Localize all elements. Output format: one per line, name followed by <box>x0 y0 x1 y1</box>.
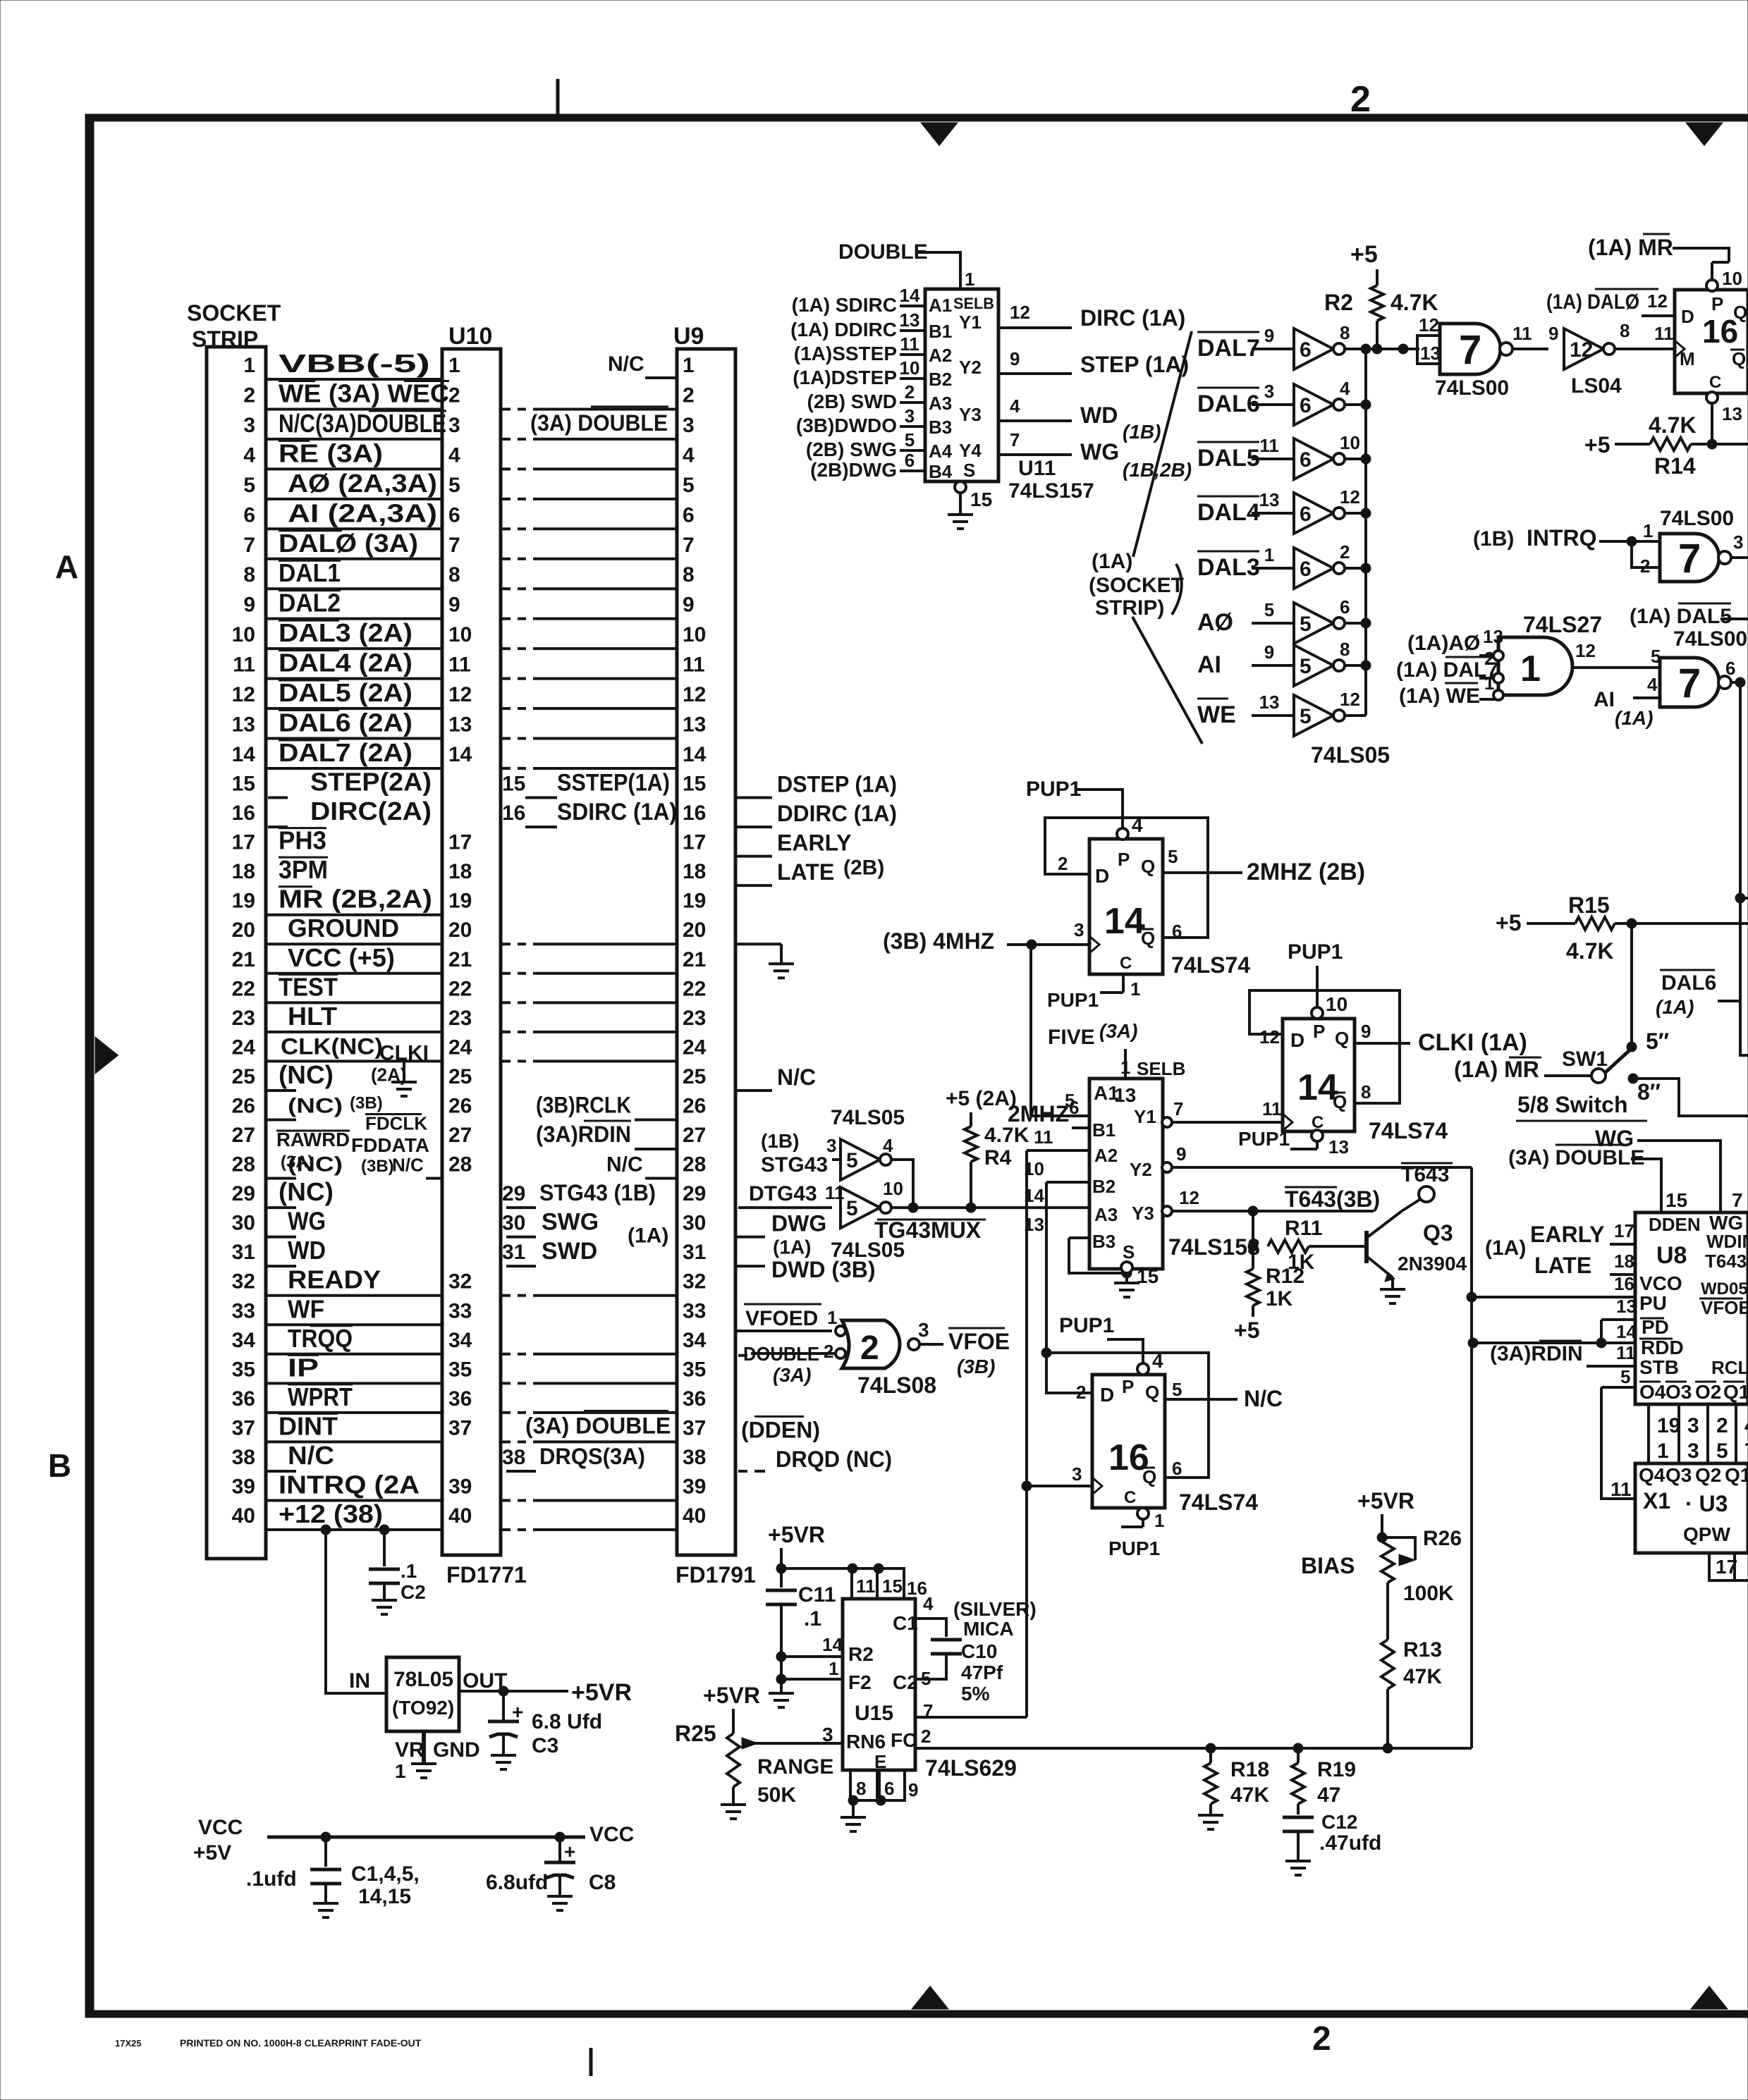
svg-text:O4: O4 <box>1639 1381 1666 1403</box>
svg-text:O2: O2 <box>1695 1381 1721 1403</box>
svg-text:14,15: 14,15 <box>358 1885 411 1908</box>
svg-text:.1: .1 <box>804 1607 821 1631</box>
svg-text:29: 29 <box>683 1182 706 1205</box>
svg-text:(3A): (3A) <box>773 1364 811 1386</box>
svg-text:WE: WE <box>1197 701 1236 728</box>
svg-text:R18: R18 <box>1230 1758 1269 1781</box>
svg-text:(1A)AØ: (1A)AØ <box>1407 632 1480 655</box>
svg-text:N/C: N/C <box>606 1153 643 1177</box>
U11 pin 3 (3B)DWDO <box>900 425 925 428</box>
svg-text:M: M <box>1680 348 1695 369</box>
svg-text:(1A): (1A) <box>1092 550 1132 573</box>
svg-text:+: + <box>564 1841 575 1862</box>
ground at U10 pin 24/25 CLKI <box>403 1061 405 1082</box>
svg-text:2: 2 <box>1716 1414 1728 1437</box>
svg-text:22: 22 <box>232 977 255 1000</box>
mux pin 5 A1 (4MHZ) <box>1031 1115 1089 1117</box>
svg-text:78L05: 78L05 <box>393 1668 453 1691</box>
svg-text:40: 40 <box>232 1504 255 1528</box>
svg-text:SDIRC (1A): SDIRC (1A) <box>557 799 677 825</box>
svg-text:+5: +5 <box>1234 1318 1259 1343</box>
svg-text:9: 9 <box>1548 323 1558 344</box>
svg-text:DAL6 (2A): DAL6 (2A) <box>279 708 412 737</box>
svg-text:7: 7 <box>448 534 460 557</box>
svg-text:FIVE: FIVE <box>1048 1026 1095 1049</box>
svg-text:33: 33 <box>232 1299 255 1322</box>
svg-text:SSTEP(1A): SSTEP(1A) <box>557 770 670 797</box>
svg-text:4: 4 <box>1340 378 1350 399</box>
svg-text:17: 17 <box>683 831 706 854</box>
svg-text:37: 37 <box>232 1416 255 1439</box>
svg-text:5: 5 <box>1300 655 1312 678</box>
X1-U3 pin 17 QPW out <box>1709 1553 1748 1580</box>
U15 pin 14 R2 <box>776 1652 786 1662</box>
svg-text:F2: F2 <box>848 1671 872 1693</box>
svg-text:DIRC (1A): DIRC (1A) <box>1080 305 1185 331</box>
svg-text:C10: C10 <box>961 1640 997 1662</box>
svg-text:PRINTED ON NO. 1000H-8 CLEARPR: PRINTED ON NO. 1000H-8 CLEARPRINT FADE-O… <box>180 2037 422 2049</box>
svg-text:SW1: SW1 <box>1562 1048 1608 1071</box>
border frame <box>85 114 1748 121</box>
svg-text:(1A)SSTEP: (1A)SSTEP <box>794 343 897 364</box>
net label STG43 (1B) row29 <box>506 1206 536 1209</box>
svg-text:5/8 Switch: 5/8 Switch <box>1517 1092 1628 1117</box>
zone marker triangle top-left <box>921 123 958 146</box>
svg-text:DAL7 (2A): DAL7 (2A) <box>279 738 412 767</box>
svg-text:10: 10 <box>900 357 920 379</box>
svg-text:CLK(NC): CLK(NC) <box>281 1033 383 1059</box>
svg-text:WE (3A) WEC: WE (3A) WEC <box>279 379 449 407</box>
svg-text:30: 30 <box>232 1212 255 1235</box>
svg-text:DAL5: DAL5 <box>1197 445 1260 472</box>
svg-text:(1B): (1B) <box>1123 421 1161 443</box>
NAND gate 74LS00 pins 12/13 out 11 <box>1417 336 1440 364</box>
svg-text:14: 14 <box>448 743 472 766</box>
svg-text:STRIP): STRIP) <box>1095 596 1164 620</box>
svg-text:STB: STB <box>1639 1356 1679 1378</box>
svg-text:N/C: N/C <box>1244 1386 1283 1411</box>
svg-text:(3A)RDIN: (3A)RDIN <box>1490 1342 1583 1365</box>
svg-text:WG: WG <box>288 1207 326 1236</box>
svg-text:+5VR: +5VR <box>703 1683 760 1708</box>
svg-text:14: 14 <box>822 1634 843 1655</box>
net label DSTEP (1A) U9 row15 <box>735 797 772 799</box>
svg-text:12: 12 <box>1575 640 1596 661</box>
svg-text:17: 17 <box>232 831 255 854</box>
svg-text:19: 19 <box>1657 1414 1680 1437</box>
svg-text:6: 6 <box>1172 921 1182 942</box>
svg-text:3: 3 <box>243 414 255 437</box>
svg-text:A1: A1 <box>929 295 952 316</box>
svg-text:TEST: TEST <box>279 972 338 1001</box>
svg-text:DTG43: DTG43 <box>749 1182 817 1205</box>
svg-text:9: 9 <box>1361 1021 1371 1042</box>
svg-text:19: 19 <box>232 890 255 913</box>
svg-text:DSTEP (1A): DSTEP (1A) <box>777 772 897 797</box>
svg-text:(1A): (1A) <box>628 1224 668 1248</box>
svg-text:23: 23 <box>683 1007 706 1030</box>
zone tick 1 top <box>556 79 560 114</box>
svg-text:13: 13 <box>683 713 706 737</box>
IC U8 body <box>1635 1212 1748 1404</box>
svg-text:11: 11 <box>900 333 919 355</box>
wire DAL3 inverter output to bus <box>1345 567 1366 570</box>
svg-text:R19: R19 <box>1317 1758 1356 1781</box>
svg-text:26: 26 <box>448 1094 472 1117</box>
svg-text:R13: R13 <box>1403 1638 1442 1662</box>
svg-text:11: 11 <box>1512 323 1532 344</box>
svg-text:AØ (2A,3A): AØ (2A,3A) <box>288 469 437 498</box>
svg-text:+: + <box>512 1701 523 1723</box>
svg-text:C: C <box>1124 1488 1136 1507</box>
svg-text:25: 25 <box>448 1065 472 1088</box>
svg-text:2: 2 <box>243 383 255 407</box>
svg-text:11: 11 <box>233 653 255 677</box>
net label DRQD (NC) U9 row38 <box>738 1470 747 1473</box>
svg-text:6: 6 <box>448 503 460 527</box>
svg-text:P: P <box>1122 1376 1134 1397</box>
wire NAND6 output down right edge <box>1740 682 1748 1055</box>
svg-text:74LS27: 74LS27 <box>1523 612 1602 637</box>
U11 pin 6 (2B)DWG <box>900 469 925 472</box>
svg-text:50K: 50K <box>757 1783 796 1807</box>
wire socket-strip pin 13 to U10 <box>266 737 442 740</box>
capacitor C8 6.8ufd <box>555 1832 565 1842</box>
svg-text:6: 6 <box>905 450 915 471</box>
svg-text:21: 21 <box>683 948 706 971</box>
svg-text:4.7K: 4.7K <box>1649 412 1697 438</box>
svg-text:20: 20 <box>683 919 706 942</box>
svg-text:2MHZ: 2MHZ <box>1008 1101 1069 1126</box>
svg-text:3: 3 <box>1733 532 1743 553</box>
svg-text:13: 13 <box>900 309 920 331</box>
svg-text:C2: C2 <box>401 1581 426 1603</box>
svg-text:VR: VR <box>395 1738 424 1762</box>
svg-text:24: 24 <box>683 1036 707 1059</box>
svg-text:WF: WF <box>288 1294 324 1323</box>
wire stub socket pin 29 <box>266 1206 296 1209</box>
svg-text:19: 19 <box>448 890 472 913</box>
svg-text:30: 30 <box>683 1212 706 1235</box>
svg-text:3: 3 <box>905 405 915 426</box>
svg-text:2: 2 <box>683 383 695 407</box>
svg-text:Q: Q <box>1333 1091 1347 1112</box>
svg-text:13: 13 <box>1420 343 1441 364</box>
svg-text:(SOCKET: (SOCKET <box>1089 574 1184 597</box>
svg-text:R15: R15 <box>1568 892 1610 918</box>
svg-text:2: 2 <box>1350 79 1371 120</box>
wire 74LS27 out to NAND pin 5 <box>1572 666 1660 669</box>
svg-text:R2: R2 <box>1324 290 1353 315</box>
svg-text:U11: U11 <box>1018 457 1056 480</box>
wire socket-strip pin 9 to U10 <box>266 618 442 620</box>
svg-text:RCLK: RCLK <box>1711 1357 1748 1378</box>
svg-text:11: 11 <box>448 653 471 677</box>
zone marker triangle top-right <box>1686 123 1723 146</box>
flip-flop U14 74LS74 #1 <box>1089 839 1163 974</box>
wire socket-strip pin 36 to U10 <box>266 1411 442 1414</box>
svg-text:22: 22 <box>683 977 706 1000</box>
svg-text:Q: Q <box>1141 856 1155 877</box>
svg-text:1: 1 <box>1154 1510 1164 1531</box>
svg-text:27: 27 <box>448 1124 472 1147</box>
svg-text:5: 5 <box>846 1197 858 1220</box>
wire PUP1 to FF preset pin 10 <box>1316 966 1319 1013</box>
svg-text:74LS629: 74LS629 <box>925 1755 1017 1781</box>
svg-text:DALØ (3A): DALØ (3A) <box>279 529 418 558</box>
svg-text:9: 9 <box>1176 1143 1186 1165</box>
svg-text:P: P <box>1313 1021 1325 1042</box>
svg-text:IP: IP <box>288 1353 319 1382</box>
svg-text:47K: 47K <box>1403 1665 1442 1688</box>
svg-text:28: 28 <box>448 1153 472 1177</box>
U11 pin 2 (2B) SWD <box>900 401 925 404</box>
svg-text:B4: B4 <box>929 461 953 482</box>
resistor R13 47K <box>1386 1583 1389 1640</box>
svg-text:74LS74: 74LS74 <box>1179 1490 1258 1515</box>
svg-text:23: 23 <box>448 1007 472 1030</box>
svg-text:R14: R14 <box>1654 453 1696 479</box>
svg-text:U9: U9 <box>673 323 704 350</box>
svg-text:17X25: 17X25 <box>115 2038 142 2049</box>
U11 pin 14 (1A) SDIRC <box>900 305 925 307</box>
svg-text:3: 3 <box>1264 381 1274 402</box>
zone marker triangle bottom-right <box>1691 1987 1728 2010</box>
svg-text:74LS00: 74LS00 <box>1435 376 1509 400</box>
svg-text:(1A) DDIRC: (1A) DDIRC <box>790 319 897 340</box>
svg-text:11: 11 <box>1654 323 1674 344</box>
svg-text:12: 12 <box>1570 338 1593 362</box>
svg-text:+5VR: +5VR <box>1357 1488 1414 1513</box>
wire 4MHZ to FF14 clock pin 3 <box>1007 943 1089 946</box>
svg-text:INTRQ (2A: INTRQ (2A <box>279 1470 420 1499</box>
U11 pin 11 (1A)SSTEP <box>900 353 925 356</box>
svg-text:VCC: VCC <box>198 1816 243 1839</box>
wire U10 pin 14 to U9 <box>502 767 511 770</box>
svg-text:LATE: LATE <box>777 859 834 885</box>
svg-text:DDIRC (1A): DDIRC (1A) <box>777 801 897 826</box>
svg-text:Q4: Q4 <box>1639 1464 1666 1486</box>
svg-text:4.7K: 4.7K <box>1566 938 1614 964</box>
svg-text:9: 9 <box>1264 641 1274 663</box>
flip-flop U16 74LS74 (top right) <box>1675 290 1748 393</box>
svg-text:MICA: MICA <box>963 1618 1014 1640</box>
svg-text:DAL3 (2A): DAL3 (2A) <box>279 618 412 647</box>
svg-text:SELB: SELB <box>953 295 994 312</box>
svg-text:PUP1: PUP1 <box>1059 1314 1114 1337</box>
capacitor C12 .47ufd <box>1283 1816 1314 1819</box>
svg-text:5: 5 <box>1620 1366 1630 1387</box>
svg-text:7: 7 <box>1173 1098 1183 1119</box>
svg-text:Q: Q <box>1732 348 1746 369</box>
svg-text:74LS00: 74LS00 <box>1673 627 1747 651</box>
svg-text:6: 6 <box>683 503 695 527</box>
svg-text:VFOE: VFOE <box>1701 1297 1748 1318</box>
svg-text:Y3: Y3 <box>1132 1203 1154 1224</box>
svg-text:9: 9 <box>908 1779 918 1800</box>
wire socket-strip pin 3 to U10 <box>266 438 442 441</box>
svg-text:5: 5 <box>448 474 460 497</box>
svg-text:3: 3 <box>683 414 695 437</box>
wire mux A2 pin 11 loop down <box>1025 1150 1028 1717</box>
svg-text:17: 17 <box>1614 1220 1634 1241</box>
svg-text:1: 1 <box>448 354 460 377</box>
svg-text:AI: AI <box>1594 688 1615 711</box>
wire socket-strip pin 33 to U10 <box>266 1323 442 1326</box>
svg-text:34: 34 <box>448 1329 472 1352</box>
svg-text:FC: FC <box>891 1729 917 1751</box>
zone tick 1 bottom <box>589 2048 593 2076</box>
wire switch 8-inch contact <box>1633 1079 1748 1116</box>
svg-text:1: 1 <box>1657 1439 1669 1463</box>
svg-text:P: P <box>1711 293 1723 314</box>
svg-text:+5VR: +5VR <box>768 1522 825 1547</box>
wire socket-strip pin 24 to U10 <box>266 1060 442 1062</box>
wire socket-strip pin 10 to U10 <box>266 647 442 650</box>
svg-text:47Pf: 47Pf <box>961 1662 1003 1683</box>
svg-text:7: 7 <box>1732 1189 1743 1211</box>
wire DTG43 output to TG43MUX <box>891 1206 913 1209</box>
svg-text:D: D <box>1290 1029 1304 1051</box>
svg-text:B2: B2 <box>929 369 952 390</box>
svg-text:S: S <box>1123 1241 1135 1263</box>
svg-text:DAL4: DAL4 <box>1197 499 1260 526</box>
svg-text:Y1: Y1 <box>959 312 982 333</box>
wire U10 pin 5 to U9 <box>502 498 511 501</box>
wire U10 pin 37 to U9 <box>502 1440 511 1443</box>
svg-text:C1: C1 <box>893 1612 918 1634</box>
wire socket-strip pin 4 to U10 <box>266 467 442 470</box>
svg-text:3: 3 <box>1687 1439 1699 1463</box>
mux Y3 out pin 12 <box>1162 1206 1172 1216</box>
svg-text:(2B)DWG: (2B)DWG <box>810 459 897 481</box>
svg-text:WD: WD <box>288 1236 326 1265</box>
wire DAL6 inverter output to bus <box>1345 403 1366 406</box>
wire U10 pin 39 to U9 <box>502 1499 511 1502</box>
wire U9 row34 to VFOE gate pin2 <box>738 1354 747 1357</box>
svg-text:14: 14 <box>232 743 256 766</box>
net label LATE U9 row18 <box>735 884 772 887</box>
IC X1-U3 body <box>1635 1463 1748 1553</box>
svg-text:DAL6: DAL6 <box>1661 971 1716 995</box>
FF2 feedback Qbar to D <box>1249 990 1400 1103</box>
wire Y2 to VCO/FC (long) <box>1470 1167 1473 1748</box>
svg-text:74LS00: 74LS00 <box>1660 507 1734 530</box>
wire U10 pin 13 to U9 <box>502 737 511 740</box>
svg-text:13: 13 <box>1722 403 1742 424</box>
svg-text:CLKI (1A): CLKI (1A) <box>1418 1029 1527 1056</box>
svg-text:C2: C2 <box>893 1671 918 1693</box>
svg-text:1: 1 <box>1643 520 1653 541</box>
svg-text:(1A) MR: (1A) MR <box>1588 235 1673 260</box>
svg-text:2: 2 <box>448 383 460 407</box>
svg-text:13: 13 <box>1328 1136 1349 1158</box>
svg-text:74LS157: 74LS157 <box>1008 479 1094 503</box>
svg-text:1: 1 <box>1130 978 1140 1000</box>
svg-text:T643(3B): T643(3B) <box>1285 1186 1380 1212</box>
svg-text:(NC): (NC) <box>279 1177 334 1206</box>
U8 to X1-U3 interconnect pin boxes <box>1647 1404 1650 1463</box>
svg-text:12: 12 <box>1340 689 1360 710</box>
svg-text:3: 3 <box>1074 919 1084 940</box>
net label DDIRC (1A) U9 row16 <box>735 825 772 828</box>
net label N/C U9 row25 <box>735 1089 772 1092</box>
U15 top pin boxes 11,15,16 <box>852 1568 877 1599</box>
svg-text:· U3: · U3 <box>1685 1491 1728 1516</box>
svg-text:DDEN: DDEN <box>1649 1214 1701 1235</box>
svg-text:Q: Q <box>1142 1466 1156 1487</box>
capacitor C3 6.8ufd <box>502 1691 505 1720</box>
svg-text:(1A) WE: (1A) WE <box>1399 684 1480 708</box>
svg-text:14: 14 <box>1616 1321 1637 1342</box>
svg-text:(DDEN): (DDEN) <box>741 1417 820 1442</box>
svg-text:9: 9 <box>1010 348 1020 369</box>
svg-text:STG43: STG43 <box>761 1153 828 1177</box>
svg-text:11: 11 <box>1611 1478 1632 1500</box>
svg-text:37: 37 <box>683 1416 706 1439</box>
svg-text:2: 2 <box>1076 1382 1086 1403</box>
wire FF3 Q to N/C <box>1165 1398 1237 1401</box>
svg-text:2: 2 <box>905 381 915 403</box>
transistor Q3 2N3904 <box>1364 1231 1369 1263</box>
svg-text:7: 7 <box>683 534 695 557</box>
svg-text:+5VR: +5VR <box>571 1679 632 1706</box>
mux Y1 out pin 7 <box>1162 1117 1172 1127</box>
svg-text:+5V: +5V <box>193 1841 231 1865</box>
svg-text:12: 12 <box>1259 1026 1280 1048</box>
svg-text:11: 11 <box>856 1576 876 1597</box>
IC U11 74LS157 body <box>925 289 998 481</box>
wire U10 pin 21 to U9 <box>502 972 511 975</box>
svg-text:R26: R26 <box>1423 1527 1462 1550</box>
svg-text:R12: R12 <box>1266 1265 1304 1288</box>
svg-text:8: 8 <box>683 563 695 587</box>
svg-text:STEP (1A): STEP (1A) <box>1080 352 1189 377</box>
svg-text:8″: 8″ <box>1637 1079 1661 1105</box>
wire socket-strip pin 21 to U10 <box>266 972 442 975</box>
svg-text:(NC): (NC) <box>288 1094 343 1117</box>
svg-text:20: 20 <box>448 919 472 942</box>
svg-text:RN6: RN6 <box>846 1731 886 1752</box>
svg-text:WPRT: WPRT <box>288 1382 353 1411</box>
wire U10 pin 9 to U9 <box>502 618 511 620</box>
svg-text:5: 5 <box>243 474 255 497</box>
svg-text:6: 6 <box>1300 558 1312 581</box>
svg-text:8: 8 <box>1620 320 1630 341</box>
svg-text:(1A) SDIRC: (1A) SDIRC <box>792 294 897 316</box>
svg-text:.1: .1 <box>401 1560 417 1582</box>
svg-text:D: D <box>1681 306 1694 327</box>
svg-text:16: 16 <box>502 802 525 825</box>
U11 pin 5 (2B) SWG <box>900 449 925 452</box>
svg-text:15: 15 <box>1666 1189 1687 1211</box>
svg-text:(1A)DSTEP: (1A)DSTEP <box>793 367 897 388</box>
wire U10 pin 32 to U9 <box>502 1294 511 1297</box>
inverter output bus vertical <box>1364 349 1367 716</box>
IC U9 body <box>677 349 735 1555</box>
svg-text:13: 13 <box>1259 489 1280 510</box>
svg-text:(3A) DOUBLE: (3A) DOUBLE <box>525 1413 671 1438</box>
net TG43MUX wire <box>913 1206 1089 1209</box>
svg-text:7: 7 <box>1010 429 1020 450</box>
svg-text:Q1: Q1 <box>1723 1381 1748 1403</box>
svg-text:6.8ufd: 6.8ufd <box>486 1871 548 1894</box>
svg-text:5: 5 <box>1168 846 1178 867</box>
svg-text:74LS05: 74LS05 <box>831 1106 905 1129</box>
wire stub socket pin 28 <box>266 1177 296 1180</box>
svg-text:25: 25 <box>683 1065 706 1088</box>
wire socket-strip pin 19 to U10 <box>266 914 442 916</box>
